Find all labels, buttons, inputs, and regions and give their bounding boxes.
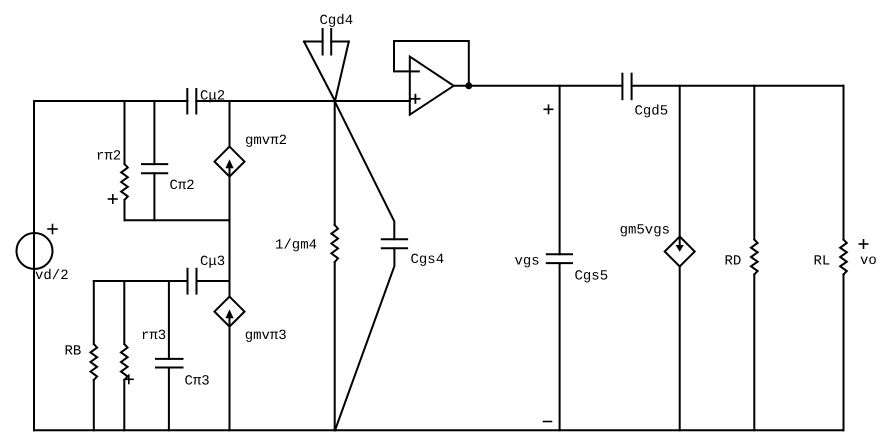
wire emitter2	[125, 219, 230, 221]
svg-text:RL: RL	[814, 254, 831, 270]
svg-text:Cπ3: Cπ3	[185, 374, 210, 390]
wire Cgd4 right diagonal	[335, 42, 349, 102]
svg-text:Cgd4: Cgd4	[320, 13, 354, 29]
resistor RL	[840, 86, 847, 431]
wire top-left	[34, 100, 187, 102]
current source gmvpi2	[215, 147, 245, 177]
op-amp minus	[410, 70, 419, 72]
wire gmvpi2 bottom to base3	[229, 177, 231, 281]
wire top mid	[196, 100, 410, 102]
current source gmvpi3	[215, 297, 245, 327]
svg-text:vo: vo	[860, 253, 877, 269]
capacitor Cmu2	[187, 89, 196, 114]
wire gmvpi2 top	[229, 101, 231, 147]
resistor RD	[751, 86, 758, 431]
wire Cgs4 upper diagonal	[335, 101, 395, 239]
capacitor Cpi2	[142, 101, 167, 220]
svg-text:rπ2: rπ2	[96, 149, 121, 165]
svg-text:RB: RB	[65, 344, 82, 360]
wire bottom rail	[34, 429, 844, 431]
op-amp U1	[410, 57, 454, 115]
svg-text:gmvπ2: gmvπ2	[245, 133, 287, 149]
svg-text:Cgd5: Cgd5	[635, 104, 669, 120]
capacitor Cgs4	[382, 239, 407, 248]
svg-text:gm5vgs: gm5vgs	[620, 223, 670, 239]
svg-text:Cgs4: Cgs4	[411, 252, 445, 268]
wire Cgd4 left stub	[304, 41, 323, 43]
plus rpi3	[125, 375, 133, 383]
plus vo	[859, 240, 867, 248]
svg-text:vgs: vgs	[515, 254, 540, 270]
wire output right	[632, 85, 844, 87]
svg-text:gmvπ3: gmvπ3	[245, 328, 287, 344]
wire base3 right	[197, 280, 230, 282]
plus rpi2	[109, 195, 118, 203]
wire Cgd4 left diagonal	[304, 42, 335, 102]
wire gm5vgs bottom	[679, 267, 681, 431]
svg-text:Cμ2: Cμ2	[200, 89, 225, 105]
wire left edge	[33, 101, 35, 430]
svg-text:RD: RD	[725, 254, 742, 270]
current source gm5vgs	[665, 237, 695, 267]
resistor RB	[91, 281, 98, 430]
wire Cgs4 lower diagonal	[335, 248, 394, 430]
wire feedback	[394, 41, 469, 86]
wire base3 left	[94, 280, 188, 282]
wire gmvpi3 top	[229, 281, 231, 297]
svg-text:Cπ2: Cπ2	[170, 178, 195, 194]
wire gm5vgs top	[679, 86, 681, 237]
capacitor Cmu3	[188, 269, 197, 294]
op-amp plus	[411, 95, 419, 103]
minus vgs	[544, 421, 552, 423]
node output dot	[465, 82, 472, 89]
wire output	[454, 85, 623, 87]
resistor 1/gm4	[331, 101, 338, 430]
capacitor Cpi3	[156, 281, 183, 430]
svg-text:Cμ3: Cμ3	[200, 254, 225, 270]
svg-text:vd/2: vd/2	[35, 268, 69, 284]
svg-text:Cgs5: Cgs5	[575, 269, 609, 285]
capacitor Cgs5	[547, 86, 572, 431]
plus vd/2	[48, 225, 57, 234]
resistor rpi2	[121, 101, 128, 220]
plus vgs	[544, 105, 552, 113]
capacitor Cgd4	[323, 29, 332, 55]
svg-text:1/gm4: 1/gm4	[275, 238, 317, 254]
resistor rpi3	[121, 281, 128, 430]
voltage source vd/2	[17, 233, 53, 269]
wire Cgd4 right stub	[331, 41, 349, 43]
wire gmvpi3 bottom	[229, 327, 231, 431]
svg-text:rπ3: rπ3	[141, 328, 166, 344]
capacitor Cgd5	[622, 74, 631, 100]
